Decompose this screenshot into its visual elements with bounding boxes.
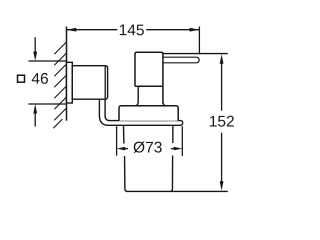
svg-text:46: 46 [31,71,48,88]
cup bottom + 152 bottom extension line [127,190,228,192]
dim 145 right arrow [190,28,200,32]
dim 73 left extension line [116,126,118,155]
dim 145 right extension line [198,27,200,55]
holder arm inner edge / ring top [105,99,183,123]
dim 145 left arrow [67,28,77,32]
dim 73 left arrow [117,147,125,151]
dim 152 bottom arrow [220,181,224,191]
dim 46 top extension line [28,60,66,62]
glass cup left wall [124,126,128,191]
holder arm outer edge [99,99,182,125]
svg-text:145: 145 [119,22,145,39]
dim 46 bottom extension line [28,103,66,105]
holder housing [72,66,107,100]
dim 152 line [221,62,223,183]
pump head [135,52,163,103]
spout top edge + 152 top extension line (continuous) [163,53,228,55]
pump neck [137,86,165,105]
dim 46 down arrow [34,37,36,53]
dim 152 top arrow [220,54,224,64]
wall plate (escutcheon, side view) [67,62,73,103]
spout tube [163,57,199,63]
dim 73 right extension line [181,126,183,156]
svg-text:152: 152 [209,113,235,130]
dim 46 square symbol [18,75,25,82]
dim 46 up arrow [33,104,37,114]
glass cup right wall [170,126,173,191]
wall line [66,27,68,121]
housing seam line [104,66,106,99]
dim 145 line [67,29,199,31]
dim 73 right arrow [174,147,182,151]
wall hatch [53,42,66,128]
collar flange [119,106,178,121]
svg-text:Ø73: Ø73 [133,139,162,156]
